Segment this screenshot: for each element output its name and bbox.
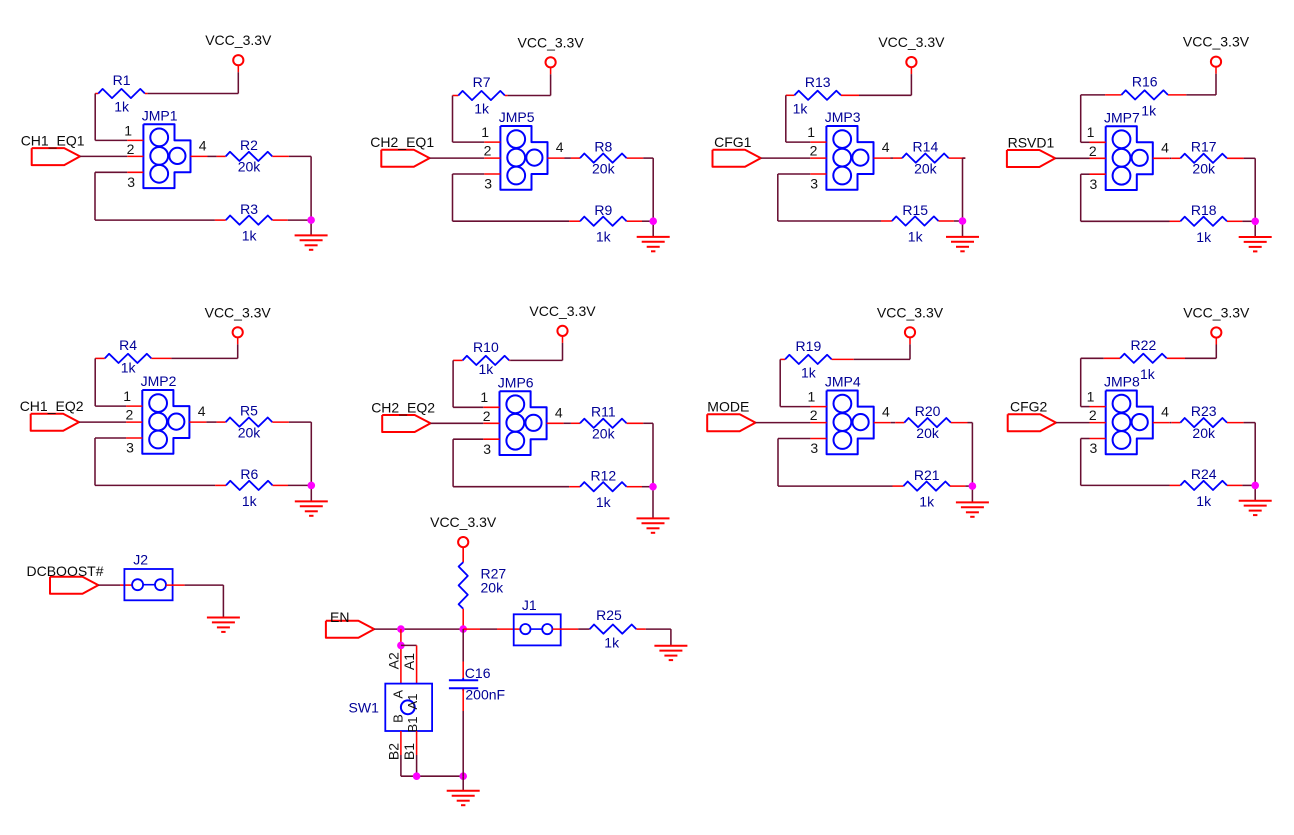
svg-text:JMP3: JMP3 (825, 109, 861, 125)
svg-text:1: 1 (1087, 389, 1095, 405)
svg-text:R8: R8 (594, 139, 612, 155)
svg-text:1k: 1k (474, 101, 490, 117)
svg-text:R1: R1 (113, 72, 131, 88)
svg-text:1k: 1k (1141, 102, 1157, 118)
svg-text:JMP2: JMP2 (141, 373, 177, 389)
svg-text:3: 3 (810, 176, 818, 192)
svg-text:JMP4: JMP4 (825, 374, 861, 390)
svg-text:B1: B1 (405, 717, 420, 733)
svg-text:20k: 20k (916, 425, 940, 441)
svg-text:R22: R22 (1131, 337, 1157, 353)
svg-text:B1: B1 (401, 743, 417, 760)
svg-text:1: 1 (481, 124, 489, 140)
svg-text:JMP6: JMP6 (498, 374, 534, 390)
svg-text:20k: 20k (914, 160, 938, 176)
svg-text:R4: R4 (119, 337, 137, 353)
svg-text:R3: R3 (240, 201, 258, 217)
svg-text:3: 3 (484, 176, 492, 192)
svg-text:1k: 1k (121, 359, 137, 375)
svg-text:B: B (391, 714, 406, 723)
svg-text:VCC_3.3V: VCC_3.3V (878, 34, 945, 50)
svg-text:C16: C16 (465, 665, 491, 681)
svg-text:MODE: MODE (707, 399, 749, 415)
svg-text:1k: 1k (114, 99, 130, 115)
svg-text:VCC_3.3V: VCC_3.3V (1183, 34, 1250, 50)
svg-text:A: A (391, 690, 406, 699)
svg-text:3: 3 (1090, 440, 1098, 456)
svg-text:RSVD1: RSVD1 (1008, 134, 1055, 150)
svg-text:R6: R6 (240, 466, 258, 482)
svg-text:VCC_3.3V: VCC_3.3V (877, 304, 944, 320)
svg-text:4: 4 (556, 139, 564, 155)
svg-text:2: 2 (810, 407, 818, 423)
svg-text:B2: B2 (385, 743, 401, 760)
svg-text:1k: 1k (604, 635, 620, 651)
svg-text:R16: R16 (1132, 73, 1158, 89)
svg-text:20k: 20k (238, 159, 262, 175)
svg-text:20k: 20k (1192, 161, 1216, 177)
svg-text:4: 4 (555, 404, 563, 420)
svg-text:JMP7: JMP7 (1104, 109, 1140, 125)
svg-text:1: 1 (1087, 124, 1095, 140)
svg-text:CFG1: CFG1 (714, 134, 752, 150)
svg-text:1: 1 (124, 122, 132, 138)
svg-text:R20: R20 (915, 403, 941, 419)
svg-text:VCC_3.3V: VCC_3.3V (430, 514, 497, 530)
svg-text:4: 4 (199, 138, 207, 154)
svg-text:1k: 1k (596, 494, 612, 510)
svg-text:1k: 1k (793, 100, 809, 116)
svg-text:R19: R19 (796, 338, 822, 354)
svg-text:2: 2 (126, 407, 134, 423)
svg-text:R2: R2 (240, 137, 258, 153)
svg-text:VCC_3.3V: VCC_3.3V (518, 34, 585, 50)
svg-text:A1: A1 (405, 694, 420, 710)
svg-text:JMP1: JMP1 (142, 108, 178, 124)
svg-text:1: 1 (807, 124, 815, 140)
svg-text:JMP5: JMP5 (499, 109, 535, 125)
svg-text:CH2_EQ1: CH2_EQ1 (370, 134, 434, 150)
svg-text:20k: 20k (592, 160, 616, 176)
svg-text:1k: 1k (1140, 366, 1156, 382)
svg-text:R5: R5 (240, 403, 258, 419)
svg-text:A2: A2 (385, 652, 401, 669)
svg-text:3: 3 (1090, 176, 1098, 192)
svg-text:R21: R21 (914, 467, 940, 483)
svg-text:1k: 1k (908, 229, 924, 245)
svg-text:2: 2 (483, 408, 491, 424)
svg-text:1: 1 (808, 389, 816, 405)
svg-text:1k: 1k (919, 494, 935, 510)
svg-text:1: 1 (480, 389, 488, 405)
svg-text:2: 2 (1089, 407, 1097, 423)
svg-text:R9: R9 (594, 202, 612, 218)
svg-text:4: 4 (1161, 139, 1169, 155)
svg-text:CH2_EQ2: CH2_EQ2 (371, 399, 435, 415)
svg-text:VCC_3.3V: VCC_3.3V (1183, 305, 1250, 321)
svg-text:1k: 1k (479, 361, 495, 377)
svg-text:EN: EN (330, 609, 349, 625)
svg-text:20k: 20k (481, 579, 505, 595)
svg-text:J1: J1 (522, 597, 537, 613)
svg-text:CH1_EQ2: CH1_EQ2 (20, 398, 84, 414)
svg-text:200nF: 200nF (465, 686, 505, 702)
svg-text:3: 3 (126, 440, 134, 456)
svg-text:2: 2 (484, 143, 492, 159)
svg-text:1k: 1k (242, 493, 258, 509)
svg-text:J2: J2 (133, 552, 148, 568)
svg-text:R7: R7 (473, 74, 491, 90)
svg-text:1k: 1k (596, 229, 612, 245)
svg-text:R18: R18 (1191, 202, 1217, 218)
svg-text:20k: 20k (1192, 425, 1216, 441)
svg-text:3: 3 (483, 441, 491, 457)
svg-text:1: 1 (123, 388, 131, 404)
svg-text:2: 2 (127, 141, 135, 157)
svg-text:20k: 20k (592, 426, 616, 442)
svg-text:R11: R11 (591, 404, 616, 420)
svg-text:SW1: SW1 (349, 699, 380, 715)
svg-text:3: 3 (810, 440, 818, 456)
svg-text:JMP8: JMP8 (1104, 374, 1140, 390)
svg-text:3: 3 (127, 174, 135, 190)
svg-text:R17: R17 (1191, 139, 1217, 155)
svg-text:CH1_EQ1: CH1_EQ1 (21, 132, 85, 148)
svg-text:R13: R13 (805, 74, 831, 90)
svg-text:DCBOOST#: DCBOOST# (27, 563, 104, 579)
svg-text:1k: 1k (242, 228, 258, 244)
svg-text:R14: R14 (913, 139, 939, 155)
svg-text:20k: 20k (238, 424, 262, 440)
svg-text:1k: 1k (801, 364, 817, 380)
svg-text:4: 4 (1161, 404, 1169, 420)
svg-text:4: 4 (882, 404, 890, 420)
svg-text:2: 2 (810, 143, 818, 159)
svg-text:R10: R10 (473, 339, 499, 355)
svg-text:R23: R23 (1191, 403, 1217, 419)
svg-text:CFG2: CFG2 (1010, 399, 1048, 415)
svg-text:VCC_3.3V: VCC_3.3V (205, 32, 272, 48)
svg-text:VCC_3.3V: VCC_3.3V (205, 304, 272, 320)
svg-text:2: 2 (1089, 143, 1097, 159)
svg-text:4: 4 (882, 139, 890, 155)
svg-text:R25: R25 (596, 607, 622, 623)
svg-text:R24: R24 (1191, 466, 1217, 482)
svg-text:R12: R12 (590, 468, 616, 484)
svg-text:R15: R15 (902, 202, 928, 218)
svg-text:4: 4 (198, 403, 206, 419)
svg-text:1k: 1k (1196, 229, 1212, 245)
svg-text:A1: A1 (401, 653, 417, 670)
svg-text:1k: 1k (1196, 493, 1212, 509)
svg-text:VCC_3.3V: VCC_3.3V (529, 303, 596, 319)
